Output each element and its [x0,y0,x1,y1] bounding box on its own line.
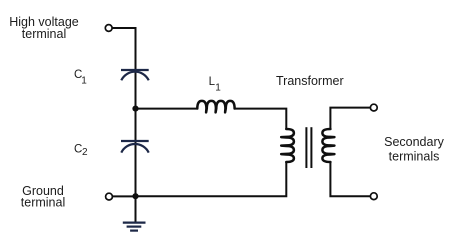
wire: ground terminal to junction [112,195,135,197]
secondary top terminal circle [370,104,377,111]
wire: top terminal to main vertical line down to ground [112,28,135,222]
label Ground terminal [21,184,65,210]
node junction top (C1/C2 tap) [132,106,138,112]
label C2 [74,144,88,158]
wire: secondary bottom to terminal [330,162,370,196]
wire: junction to L1 [136,108,198,110]
ground terminal circle [106,193,113,200]
capacitor C2 [121,141,149,153]
label L1 [209,76,222,93]
transformer primary winding [281,129,294,162]
label C1 [74,69,87,86]
svg-text:terminal: terminal [21,196,65,210]
svg-text:terminals: terminals [389,149,440,163]
svg-text:1: 1 [215,83,221,94]
transformer secondary winding [322,129,334,162]
svg-text:Secondary: Secondary [384,135,445,149]
node junction bottom (ground node) [132,193,138,199]
wire: L1 to transformer primary top [235,109,287,129]
wire: primary bottom to ground junction [136,162,287,196]
label High voltage terminal [9,15,79,41]
wire: secondary top to terminal [330,108,370,129]
label Secondary terminals [384,135,445,163]
svg-text:2: 2 [82,147,88,158]
high voltage terminal circle [105,25,112,32]
svg-text:1: 1 [81,76,87,87]
ground symbol [123,223,146,231]
inductor L1 [197,101,234,113]
svg-text:Transformer: Transformer [276,74,344,88]
svg-text:terminal: terminal [22,27,66,41]
transformer core [306,127,311,168]
capacitor C1 [121,70,149,80]
secondary bottom terminal circle [370,193,377,200]
